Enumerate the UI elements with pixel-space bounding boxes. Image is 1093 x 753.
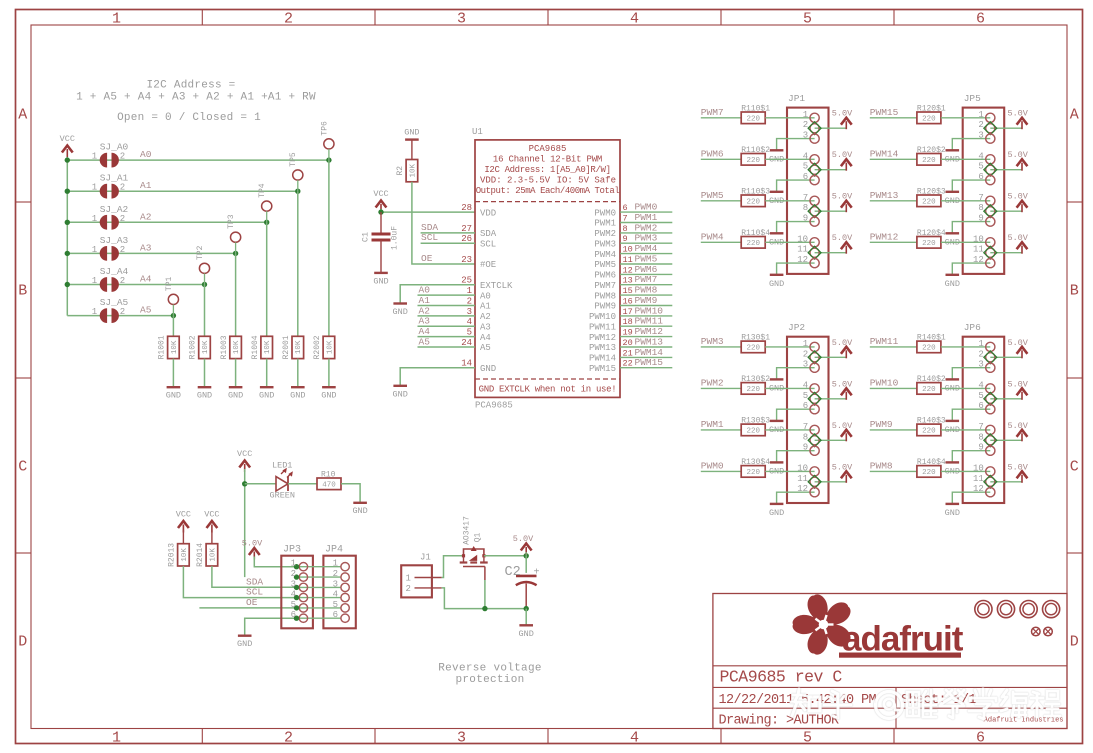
junction node A4: [202, 282, 207, 287]
svg-text:Drawing: >AUTHOR: Drawing: >AUTHOR: [719, 714, 840, 729]
wire JP1 pin 12 to ground: [777, 263, 815, 275]
svg-text:OE: OE: [421, 253, 433, 264]
JP1 pin 1: [810, 113, 819, 122]
wire GND to R2: [411, 140, 413, 160]
JP4 pin 2: [341, 573, 349, 581]
connector JP5 body: [963, 108, 1005, 274]
svg-text:23: 23: [461, 255, 472, 265]
svg-text:5: 5: [978, 162, 983, 172]
JP6 pin 8: [986, 436, 995, 445]
svg-text:10K: 10K: [409, 163, 417, 177]
JP1 pin 7: [810, 196, 819, 205]
op-amp U1 body: [475, 140, 620, 398]
wire JP3 pin 1 to JP4 pin 1: [297, 566, 341, 568]
svg-text:220: 220: [746, 240, 760, 248]
JP5 pin 12: [986, 259, 995, 268]
ground C1: [374, 272, 388, 274]
svg-text:PWM5: PWM5: [594, 260, 616, 270]
svg-text:5.0V: 5.0V: [1007, 150, 1028, 160]
wire JP2 pin 6 to ground: [777, 409, 815, 421]
svg-text:R130$1: R130$1: [741, 334, 770, 343]
resistor R110$2: [741, 154, 765, 166]
wire JP5 pin 11 to 5V: [990, 252, 1022, 254]
wire PWM2 to resistor: [701, 387, 741, 389]
svg-text:1: 1: [92, 245, 97, 255]
connector JP6 body: [963, 337, 1005, 503]
wire resistor to JP6 pin 4: [941, 387, 990, 389]
svg-text:1: 1: [92, 183, 97, 193]
svg-text:PWM15: PWM15: [589, 364, 616, 374]
svg-text:2: 2: [291, 569, 296, 579]
svg-text:5.0V: 5.0V: [832, 421, 853, 431]
svg-text:220: 220: [746, 157, 760, 165]
svg-text:9: 9: [978, 443, 983, 453]
junction Q1 gate: [482, 606, 487, 611]
svg-text:SJ_A1: SJ_A1: [100, 173, 129, 184]
wire A0 column down to resistor: [328, 149, 330, 160]
svg-text:OE: OE: [246, 597, 258, 608]
wire JP2 pin 12 to ground: [777, 492, 815, 504]
svg-text:10K: 10K: [171, 340, 179, 354]
resistor R1002: [199, 336, 211, 358]
wire JP6 pin 12 to ground: [952, 492, 990, 504]
svg-text:4: 4: [978, 151, 983, 161]
wire VCC to VDD pin: [380, 209, 382, 212]
wire JP6 pin 2 to 5V: [990, 356, 1022, 358]
svg-text:GND: GND: [166, 391, 181, 401]
junction node A2: [264, 220, 269, 225]
svg-text:R140$4: R140$4: [917, 458, 946, 467]
svg-text:9: 9: [803, 443, 808, 453]
svg-text:1: 1: [92, 152, 97, 162]
svg-text:PWM3: PWM3: [701, 336, 724, 347]
svg-text:R1002: R1002: [189, 335, 198, 359]
resistor R2014: [206, 544, 218, 566]
wire R2002 to ground: [328, 359, 330, 388]
svg-text:1: 1: [803, 339, 808, 349]
JP4 pin 6: [341, 614, 349, 622]
resistor R120$4: [917, 237, 941, 249]
wire PWM9 to resistor: [870, 429, 917, 431]
svg-text:16 Channel 12-Bit PWM: 16 Channel 12-Bit PWM: [493, 155, 602, 165]
net label A3 wire (U1): [418, 325, 476, 327]
svg-text:A5: A5: [140, 305, 152, 316]
ground JP2 group 2: [770, 420, 784, 422]
svg-text:TP4: TP4: [258, 183, 267, 198]
svg-text:A0: A0: [140, 149, 152, 160]
wire PWM6: [620, 273, 672, 275]
svg-text:R1001: R1001: [158, 335, 167, 359]
svg-text:220: 220: [746, 116, 760, 124]
svg-text:EXTCLK: EXTCLK: [480, 281, 513, 291]
svg-text:JP2: JP2: [788, 322, 805, 333]
wire JP1 pin 2 to 5V: [815, 127, 847, 129]
wire PWM13: [620, 346, 672, 348]
svg-text:A4: A4: [140, 274, 152, 285]
svg-text:PWM1: PWM1: [635, 212, 658, 223]
svg-text:11: 11: [973, 474, 984, 484]
svg-text:10K: 10K: [202, 340, 210, 354]
svg-text:5.0V: 5.0V: [832, 150, 853, 160]
JP5 pin 2: [986, 124, 995, 133]
capacitor C1: [380, 212, 382, 233]
svg-text:TP5: TP5: [289, 152, 298, 167]
wire Q1 to 5V node: [484, 555, 526, 557]
wire row A0 horizontal: [67, 159, 329, 161]
junction 5V node: [524, 553, 529, 558]
svg-text:I2C Address =: I2C Address =: [146, 80, 235, 92]
solder jumper SJ_A4: [100, 277, 107, 292]
ground JP1 group 4: [770, 274, 784, 276]
svg-text:5.0V: 5.0V: [1007, 462, 1028, 472]
resistor R2001: [292, 336, 304, 358]
wire resistor to JP1 pin 1: [765, 117, 814, 119]
svg-text:PWM4: PWM4: [701, 231, 724, 242]
wire A5 column down to resistor: [172, 305, 174, 316]
wire JP5 pin 2 to 5V: [990, 127, 1022, 129]
svg-text:PWM12: PWM12: [589, 333, 616, 343]
solder jumper SJ_A0: [100, 153, 107, 168]
ground JP5 group 1: [946, 149, 960, 151]
wire A1 column down to resistor: [297, 180, 299, 191]
wire R2001 to ground: [297, 359, 299, 388]
net label A5 wire (U1): [418, 346, 476, 348]
wire A4 column down to resistor: [204, 273, 206, 284]
svg-text:5.0V: 5.0V: [1007, 379, 1028, 389]
svg-text:220: 220: [746, 428, 760, 436]
net label A1 wire (U1): [418, 305, 476, 307]
wire resistor to JP2 pin 4: [765, 387, 814, 389]
svg-text:2: 2: [978, 120, 983, 130]
svg-text:C1: C1: [361, 232, 371, 242]
junction LED branch: [242, 481, 247, 486]
svg-text:R130$2: R130$2: [741, 375, 770, 384]
JP2 pin 2: [810, 353, 819, 362]
wire resistor to JP5 pin 1: [941, 117, 990, 119]
svg-text:GND: GND: [769, 279, 784, 289]
JP2 pin 8: [810, 436, 819, 445]
svg-text:5: 5: [978, 391, 983, 401]
wire C1 to ground: [380, 240, 382, 273]
svg-text:1.0uF: 1.0uF: [391, 226, 400, 250]
wire row A2 horizontal: [67, 221, 266, 223]
connector J1 body: [401, 565, 432, 597]
svg-text:PWM12: PWM12: [870, 231, 899, 242]
svg-text:R140$2: R140$2: [917, 375, 946, 384]
svg-text:C2: C2: [505, 565, 521, 580]
resistor R1001: [168, 336, 180, 358]
JP1 pin 12: [810, 259, 819, 268]
wire JP1 pin 9 to ground: [777, 222, 815, 234]
svg-text:I2C Address: 1[A5_A0]R/W]: I2C Address: 1[A5_A0]R/W]: [484, 165, 610, 175]
JP4 pin 3: [341, 583, 349, 591]
svg-text:4: 4: [803, 380, 808, 390]
svg-text:10K: 10K: [326, 340, 334, 354]
svg-text:10K: 10K: [264, 340, 272, 354]
ground JP6 group 4: [946, 503, 960, 505]
svg-text:R2001: R2001: [282, 335, 291, 359]
svg-text:GREEN: GREEN: [270, 491, 296, 501]
wire rail to ground: [525, 609, 527, 626]
svg-text:220: 220: [922, 157, 936, 165]
connector JP2 body: [787, 337, 829, 503]
svg-text:R140$3: R140$3: [917, 417, 946, 426]
junction bus A0: [65, 157, 70, 162]
adafruit logo star: [793, 594, 851, 654]
svg-text:VCC: VCC: [237, 449, 252, 459]
svg-text:PWM14: PWM14: [589, 354, 616, 364]
JP2 pin 11: [810, 477, 819, 486]
svg-text:PWM1: PWM1: [594, 219, 616, 229]
wire PWM13 to resistor: [870, 200, 917, 202]
ground EXTCLK: [393, 302, 407, 304]
svg-text:SJ_A2: SJ_A2: [100, 204, 129, 215]
svg-text:PWM4: PWM4: [594, 250, 616, 260]
svg-text:Output: 25mA Each/400mA Total: Output: 25mA Each/400mA Total: [476, 186, 620, 196]
svg-text:PWM8: PWM8: [594, 291, 616, 301]
wire PWM7 to resistor: [701, 117, 741, 119]
svg-text:2: 2: [120, 152, 125, 162]
svg-text:VDD: VDD: [480, 208, 496, 218]
JP5 pin 5: [986, 165, 995, 174]
resistor R130$3: [741, 424, 765, 436]
logo crossed circles: [1032, 627, 1041, 636]
JP5 pin 11: [986, 248, 995, 257]
svg-text:TP3: TP3: [227, 214, 236, 229]
resistor R140$3: [917, 424, 941, 436]
svg-text:R2013: R2013: [168, 543, 177, 567]
svg-text:PWM2: PWM2: [701, 377, 724, 388]
svg-text:2: 2: [120, 214, 125, 224]
wire row A4 horizontal: [67, 284, 204, 286]
svg-text:1: 1: [112, 11, 121, 28]
svg-text:R1003: R1003: [220, 335, 229, 359]
svg-text:10K: 10K: [233, 340, 241, 354]
wire R2014 to SDA row: [212, 566, 297, 587]
JP2 pin 1: [810, 342, 819, 351]
wire A2 column down to resistor: [266, 211, 268, 222]
svg-text:AO3417: AO3417: [463, 516, 472, 545]
connector JP3 body: [281, 556, 313, 629]
ground U1 GND pin: [393, 385, 407, 387]
svg-text:4: 4: [630, 730, 639, 747]
svg-text:5: 5: [803, 11, 812, 28]
svg-text:GND: GND: [393, 389, 408, 399]
wire PWM9: [620, 305, 672, 307]
svg-text:10: 10: [797, 234, 808, 244]
ground JP2 group 1: [770, 378, 784, 380]
resistor R140$1: [917, 341, 941, 353]
svg-text:1: 1: [978, 339, 983, 349]
svg-text:SJ_A5: SJ_A5: [100, 297, 129, 308]
svg-text:3: 3: [457, 730, 466, 747]
connector JP1 body: [787, 108, 829, 274]
wire PWM8 to resistor: [870, 470, 917, 472]
svg-text:220: 220: [746, 386, 760, 394]
svg-text:GND: GND: [945, 279, 960, 289]
svg-text:R130$4: R130$4: [741, 458, 770, 467]
net label SDA wire: [421, 232, 475, 234]
svg-text:5.0V: 5.0V: [832, 462, 853, 472]
svg-text:PCA9685: PCA9685: [529, 144, 567, 154]
svg-text:A1: A1: [140, 180, 152, 191]
JP5 pin 1: [986, 113, 995, 122]
JP4 pin 5: [341, 604, 349, 612]
svg-text:2: 2: [284, 11, 293, 28]
svg-text:D: D: [1070, 634, 1079, 651]
svg-text:JP5: JP5: [964, 93, 981, 104]
test point TP4: [262, 201, 272, 211]
svg-text:SCL: SCL: [480, 239, 496, 249]
svg-text:5.0V: 5.0V: [1007, 421, 1028, 431]
wire R1004 to ground: [266, 359, 268, 388]
wire A3 column down to resistor: [235, 242, 237, 253]
wire J1 pin2 to ground rail: [442, 588, 527, 609]
wire JP5 pin 8 to 5V: [990, 210, 1022, 212]
svg-text:PWM11: PWM11: [870, 336, 899, 347]
wire JP5 pin 5 to 5V: [990, 169, 1022, 171]
watermark: [791, 689, 1060, 719]
svg-text:R110$2: R110$2: [741, 146, 770, 155]
svg-text:Q1: Q1: [474, 533, 483, 543]
wire PWM8: [620, 294, 672, 296]
svg-text:PWM7: PWM7: [701, 107, 724, 118]
svg-text:C: C: [18, 459, 27, 476]
svg-text:A3: A3: [419, 316, 431, 327]
svg-text:3: 3: [803, 131, 808, 141]
wire C2 to ground rail: [525, 584, 527, 609]
wire PWM12 to resistor: [870, 241, 917, 243]
svg-text:PWM2: PWM2: [594, 229, 616, 239]
svg-text:PWM5: PWM5: [701, 190, 724, 201]
svg-text:Reverse voltage: Reverse voltage: [438, 663, 542, 675]
svg-text:Adafruit Industries: Adafruit Industries: [984, 717, 1064, 725]
svg-text:PWM1: PWM1: [701, 419, 724, 430]
wire row A1 horizontal: [67, 190, 297, 192]
svg-text:4: 4: [630, 11, 639, 28]
JP6 pin 2: [986, 353, 995, 362]
wire R1002 to ground: [204, 359, 206, 388]
wire PWM6 to resistor: [701, 158, 741, 160]
svg-text:5: 5: [291, 600, 296, 610]
svg-text:5.0V: 5.0V: [832, 109, 853, 119]
svg-text:PWM13: PWM13: [589, 343, 616, 353]
svg-text:PWM0: PWM0: [701, 460, 724, 471]
wire row A3 horizontal: [67, 252, 235, 254]
svg-text:JP3: JP3: [283, 545, 301, 556]
J1 pin stubs: [415, 577, 442, 579]
JP3 pin 1: [299, 563, 307, 571]
JP6 pin 12: [986, 488, 995, 497]
svg-text:5.0V: 5.0V: [513, 534, 534, 544]
svg-text:PWM3: PWM3: [635, 233, 658, 244]
wire PWM5: [620, 263, 672, 265]
Q1 gate wire: [463, 566, 485, 568]
wire PWM12: [620, 336, 672, 338]
resistor R2: [406, 160, 418, 182]
svg-text:1: 1: [92, 307, 97, 317]
wire R10 to ground: [341, 484, 360, 503]
wire PWM2: [620, 232, 672, 234]
svg-text:7: 7: [978, 422, 983, 432]
svg-text:PWM13: PWM13: [635, 337, 664, 348]
JP6 pin 10: [986, 467, 995, 476]
svg-text:1: 1: [92, 214, 97, 224]
svg-text:5.0V: 5.0V: [1007, 192, 1028, 202]
wire JP2 pin 8 to 5V: [815, 439, 847, 441]
JP3 pin 3: [299, 583, 307, 591]
svg-text:1: 1: [112, 730, 121, 747]
svg-text:GND: GND: [945, 508, 960, 518]
wire PWM14 to resistor: [870, 158, 917, 160]
logo rings: [975, 601, 992, 618]
svg-text:GND: GND: [237, 639, 252, 649]
svg-text:R2002: R2002: [313, 335, 322, 359]
junction C2 ground: [524, 606, 529, 611]
svg-text:GND: GND: [769, 508, 784, 518]
svg-text:JP6: JP6: [964, 322, 981, 333]
net label A2 wire (U1): [418, 315, 476, 317]
wire resistor to JP5 pin 4: [941, 158, 990, 160]
wire PWM0 to resistor: [701, 470, 741, 472]
svg-text:5: 5: [803, 391, 808, 401]
svg-text:VDD: 2.3-5.5V: VDD: 2.3-5.5V: [480, 176, 551, 186]
wire U1 GND pin to ground: [400, 368, 475, 386]
ground R1001: [167, 386, 181, 388]
wire PWM1: [620, 222, 672, 224]
svg-text:4: 4: [978, 380, 983, 390]
svg-text:GND: GND: [290, 391, 305, 401]
JP3 pin 2: [299, 573, 307, 581]
svg-text:+: +: [534, 568, 540, 579]
JP1 pin 9: [810, 217, 819, 226]
U1 dashed divider bottom: [475, 378, 620, 380]
JP1 pin 4: [810, 155, 819, 164]
resistor R10: [317, 478, 341, 490]
svg-text:JP1: JP1: [788, 93, 805, 104]
svg-text:5.0V: 5.0V: [832, 192, 853, 202]
wire resistor to JP5 pin 10: [941, 241, 990, 243]
title block dividers: [713, 665, 1067, 667]
wire JP6 pin 6 to ground: [952, 409, 990, 421]
svg-text:GND: GND: [373, 277, 388, 287]
ground JP2 group 4: [770, 503, 784, 505]
svg-text:1 + A5 + A4 + A3 + A2 + A1 +A1: 1 + A5 + A4 + A3 + A2 + A1 +A1 + RW: [76, 92, 316, 104]
wire VCC bus vertical: [66, 157, 68, 316]
svg-text:6: 6: [333, 610, 338, 620]
resistor R120$1: [917, 112, 941, 124]
wire resistor to JP6 pin 10: [941, 470, 990, 472]
svg-text:A2: A2: [480, 312, 491, 322]
JP6 pin 5: [986, 394, 995, 403]
wire resistor to JP6 pin 1: [941, 346, 990, 348]
wire JP3 pin 3 to JP4 pin 3: [297, 586, 341, 588]
wire JP2 pin 5 to 5V: [815, 398, 847, 400]
ground JP6 group 3: [946, 461, 960, 463]
wire PWM4: [620, 253, 672, 255]
svg-text:PWM14: PWM14: [870, 148, 899, 159]
svg-text:GND: GND: [352, 506, 367, 516]
svg-text:3: 3: [803, 360, 808, 370]
junction node A5: [171, 313, 176, 318]
wire VCC to R2013: [182, 530, 184, 544]
svg-text:R110$3: R110$3: [741, 188, 770, 197]
wire JP6 pin 5 to 5V: [990, 398, 1022, 400]
ground JP5 group 4: [946, 274, 960, 276]
capacitor C2: [525, 556, 527, 573]
JP5 pin 3: [986, 134, 995, 143]
svg-text:A3: A3: [480, 322, 491, 332]
